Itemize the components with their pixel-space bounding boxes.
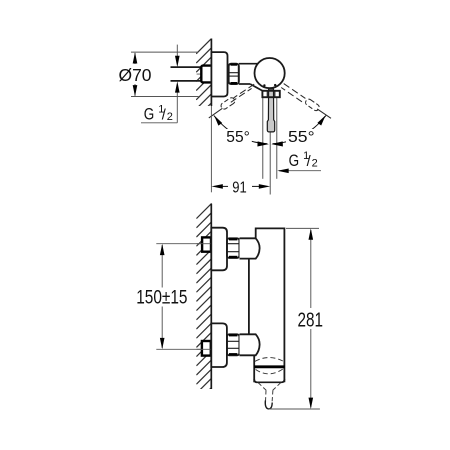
150±15 dimension — [161, 245, 163, 348]
outlet seam (thick) — [254, 365, 285, 368]
55° angle arc (right) — [271, 115, 326, 146]
outlet aerator dashed arc (lower) — [256, 369, 284, 374]
G1/2 label (left) — [141, 122, 177, 124]
G1/2 arrows at pipe (top) — [176, 45, 178, 56]
lever shaft (top view) — [267, 89, 274, 132]
svg-text:281: 281 — [298, 309, 324, 332]
outlet aerator dashed arc (upper) — [255, 358, 283, 362]
lever axis line — [269, 133, 271, 195]
wall hatching (top view) — [196, 38, 212, 127]
outlet housing bottom edge — [254, 379, 284, 382]
150 extension line (upper) — [156, 243, 204, 245]
Ø70 dimension — [131, 52, 199, 96]
55° angle arc (left) — [214, 115, 269, 146]
svg-text:55°: 55° — [288, 129, 315, 146]
svg-text:Ø70: Ø70 — [119, 65, 152, 85]
lever collar (top view) — [262, 91, 279, 97]
svg-text:G: G — [144, 105, 155, 123]
svg-text:G: G — [289, 152, 300, 170]
281 extension line (top) — [286, 227, 319, 229]
body tube (top view) — [239, 64, 263, 91]
hex connector lower (front view) — [227, 334, 239, 355]
svg-text:55°: 55° — [226, 129, 250, 146]
55° label (right) — [286, 129, 317, 144]
svg-text:150±15: 150±15 — [136, 287, 187, 309]
svg-text:91: 91 — [232, 179, 247, 196]
150 extension line (lower) — [156, 348, 204, 350]
hose nipple dashed cone — [258, 383, 280, 402]
wall union nut lower (front view) — [202, 341, 211, 356]
escutcheon upper (front view) — [211, 228, 227, 271]
hex connector nut (top view) — [229, 64, 239, 84]
dome joint lower (front view) — [240, 334, 260, 355]
escutcheon (top view) — [211, 52, 227, 96]
G1/2 label (right) with leader arrow — [279, 170, 321, 172]
dashed lever position (right) — [281, 84, 331, 119]
hose nipple tip — [265, 401, 272, 409]
pipe centerline (top view) — [197, 73, 214, 75]
svg-text:2: 2 — [312, 158, 318, 170]
wall face line (bottom view) — [210, 204, 212, 389]
valve head circle (top view) — [255, 58, 285, 88]
screw dots on head — [263, 84, 265, 86]
hex connector upper (front view) — [227, 238, 239, 258]
wall union nut upper (front view) — [202, 237, 211, 251]
281 extension line (bottom) — [269, 408, 320, 410]
supply pipe (top view) — [171, 67, 203, 81]
wall hatching (bottom view) — [196, 203, 211, 411]
lever flank extension lines — [262, 98, 264, 179]
55° label (left) — [224, 129, 252, 144]
body barrel (front view) — [249, 228, 285, 382]
wall face line (top view) — [210, 39, 212, 107]
dome joint upper (front view) — [240, 238, 260, 258]
wall union nut (top view) — [201, 66, 214, 83]
91 dimension — [210, 106, 212, 192]
escutcheon lower (front view) — [211, 323, 227, 367]
281 dimension line — [310, 230, 312, 408]
dashed lever position (left) — [209, 84, 254, 118]
lever collar outline — [262, 91, 279, 97]
svg-text:2: 2 — [167, 111, 173, 123]
